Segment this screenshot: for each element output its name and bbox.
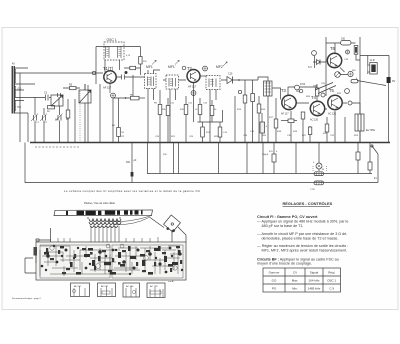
svg-text:Ex 55x: Ex 55x — [366, 128, 376, 132]
resistor R5 — [70, 87, 77, 90]
svg-text:CTN: CTN — [310, 189, 315, 191]
wire right supply column — [359, 37, 361, 143]
svg-text:— Appliquer un signal de 480 k: — Appliquer un signal de 480 kHz modulé … — [257, 220, 348, 224]
table gamme/cv/signal — [263, 268, 341, 292]
switch Int on-off with CTN thermistors — [316, 163, 322, 169]
svg-text:OSC 1: OSC 1 — [107, 38, 117, 42]
svg-text:Gamme: Gamme — [269, 271, 280, 275]
svg-text:Signal: Signal — [310, 271, 319, 275]
svg-text:MF2: MF2 — [216, 65, 223, 69]
svg-text:164 kHz: 164 kHz — [308, 279, 320, 283]
wire board top stubs — [58, 237, 158, 242]
svg-text:Min.: Min. — [292, 287, 298, 291]
svg-text:MF1': MF1' — [168, 65, 176, 69]
svg-text:C 9: C 9 — [329, 287, 334, 291]
svg-text:300µF: 300µF — [262, 154, 269, 156]
svg-text:GO: GO — [272, 279, 277, 283]
dial scale bar — [54, 210, 153, 216]
svg-text:1485 kHz: 1485 kHz — [308, 287, 321, 291]
transformer TR2 output — [355, 114, 364, 131]
svg-text:démodulée, placée entre base d: démodulée, placée entre base de T2 et ma… — [262, 236, 339, 240]
transistor T1 AF117 — [104, 71, 116, 83]
svg-text:Max.: Max. — [292, 279, 299, 283]
svg-text:C15: C15 — [228, 73, 233, 76]
PCB parts speckle — [46, 246, 182, 274]
PCB board outline — [36, 242, 186, 280]
wire from OSC1 secondary — [132, 75, 134, 98]
battery 9V — [387, 77, 391, 83]
svg-text:480 pF sur la base de T1.: 480 pF sur la base de T1. — [262, 224, 304, 228]
wire dial cord — [108, 215, 152, 224]
resistor R22 feed — [273, 143, 275, 174]
svg-text:RÉGLAGES - CONTRÔLES: RÉGLAGES - CONTRÔLES — [283, 201, 333, 206]
svg-text:Circuit FI : Gamme PO, CV ouve: Circuit FI : Gamme PO, CV ouvert — [257, 215, 318, 219]
capacitor C3 and resistor R4 — [49, 97, 51, 99]
svg-text:WS: WS — [352, 70, 356, 72]
svg-text:AC 128: AC 128 — [150, 285, 158, 288]
capacitor CV tuning gang — [51, 95, 63, 106]
antenna L1 ferrite rod M — [12, 66, 13, 114]
svg-text:T3: T3 — [281, 88, 287, 93]
antenna windings GO/PO — [14, 69, 17, 83]
svg-text:PO: PO — [272, 287, 277, 291]
wire antenna leads — [15, 68, 103, 73]
svg-text:150: 150 — [341, 38, 346, 41]
node osc coupling junction — [84, 84, 86, 90]
wire left column vertical — [74, 99, 76, 142]
svg-text:AC 126: AC 126 — [310, 119, 319, 122]
capacitor C1 C2 C4 trimmers — [34, 98, 37, 143]
svg-text:9V: 9V — [392, 79, 395, 83]
capacitor C7 coupling — [122, 75, 125, 80]
capacitor C16 300uF decoupling — [131, 142, 133, 183]
svg-text:Le schéma complet des CI ampli: Le schéma complet des CI amplifiés avec … — [64, 189, 200, 193]
svg-text:OSC 1: OSC 1 — [327, 279, 336, 283]
svg-text:300: 300 — [126, 161, 131, 164]
wire CV gang dotted link — [79, 91, 81, 142]
wire bottom return rail — [25, 143, 378, 183]
switch Int battery — [372, 146, 378, 154]
antenna loop cadre winding — [89, 219, 121, 222]
svg-text:AF 117: AF 117 — [281, 113, 289, 116]
svg-text:CV: CV — [293, 271, 297, 275]
capacitor electrolytic external — [36, 239, 51, 241]
svg-text:AC 126: AC 126 — [126, 285, 134, 288]
svg-text:Régl.: Régl. — [328, 271, 335, 275]
svg-text:AF 117: AF 117 — [74, 285, 82, 288]
resistor network bias legs R6-R14 — [113, 90, 254, 142]
svg-text:Platine / Vue de côté câblé: Platine / Vue de côté câblé — [84, 201, 115, 205]
svg-text:H.P.: H.P. — [370, 58, 375, 62]
capacitor C20 electrolytic and audio bias parts — [258, 96, 260, 142]
svg-text:MF1: MF1 — [146, 65, 153, 69]
svg-text:AF 117: AF 117 — [103, 86, 112, 90]
resistor R30 earphone network — [357, 143, 359, 174]
svg-text:D 84: D 84 — [300, 83, 306, 86]
transformer TR1 driver — [264, 81, 273, 96]
svg-text:AF 117: AF 117 — [188, 85, 197, 89]
text block reglages-controles — [257, 201, 348, 265]
wire to battery positive — [357, 81, 386, 86]
diode D2 and test points — [295, 85, 300, 90]
PCB component layout — [37, 243, 185, 279]
wire feeders to lower rail — [148, 143, 297, 174]
svg-text:PO: PO — [18, 106, 22, 109]
svg-text:M: M — [322, 169, 324, 171]
svg-text:T1(T): T1(T) — [103, 66, 114, 71]
wire lower rail — [147, 173, 372, 175]
transistor pinout diagrams — [71, 283, 166, 298]
svg-text:moyen d'une boucle de couplage: moyen d'une boucle de couplage. — [257, 262, 312, 266]
tuning drive plate — [164, 215, 181, 232]
svg-text:Int.: Int. — [374, 177, 378, 180]
wire T1 collector to MF1 — [117, 76, 145, 78]
potentiometer P volume — [335, 72, 341, 78]
svg-text:C55: C55 — [313, 85, 318, 88]
svg-text:vue A: vue A — [168, 280, 174, 283]
svg-text:S.V.: S.V. — [308, 66, 313, 69]
resistor R3 — [67, 99, 69, 110]
diode D1 detector — [227, 77, 233, 84]
wire AGC dashed link — [35, 146, 80, 148]
svg-text:AF 117: AF 117 — [101, 285, 109, 288]
svg-text:Document technique - page 2: Document technique - page 2 — [12, 297, 41, 300]
wire ground bus — [30, 142, 390, 144]
svg-text:MF1, MF1', MF3 après avoir réd: MF1, MF1', MF3 après avoir réduit l'asse… — [262, 249, 348, 253]
svg-text:T5: T5 — [329, 88, 335, 93]
transformer OSC 1 oscillator coil — [104, 42, 124, 60]
value labels speckle — [36, 55, 359, 191]
